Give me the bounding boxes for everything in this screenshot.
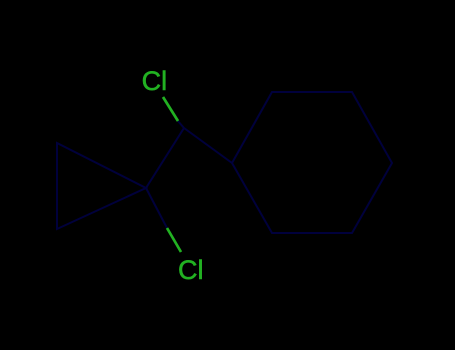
svg-text:Cl: Cl: [178, 255, 204, 285]
cyclopropane ring: [57, 143, 146, 229]
bond C1 to Cl top, green half: [163, 97, 178, 121]
bond C1 to ring: [184, 128, 232, 163]
bond C1-C2: [146, 128, 184, 188]
bond C2 to Cl bottom, dark half: [146, 188, 167, 228]
bond C1 to Cl top, dark half: [178, 121, 185, 129]
bond C2 to Cl bottom, green half: [167, 228, 181, 252]
svg-text:Cl: Cl: [142, 66, 168, 96]
benzene ring: [232, 92, 392, 233]
